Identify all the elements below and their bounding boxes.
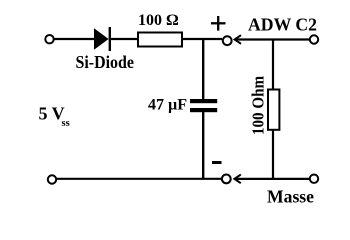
terminal circle bottom-left	[48, 175, 56, 183]
terminal circle top-left	[45, 35, 53, 43]
svg-text:47 µF: 47 µF	[148, 97, 187, 114]
wire: top-left terminal to diode anode	[54, 38, 95, 40]
resistor R2 (vertical box)	[268, 90, 279, 130]
wire: resistor R1 to node circle	[182, 38, 222, 40]
svg-text:ADW C2: ADW C2	[248, 15, 317, 35]
minus sign	[212, 161, 222, 164]
node circle top (+ output)	[223, 36, 232, 45]
terminal circle top-right (ADW C2)	[310, 35, 318, 43]
svg-text:ss: ss	[62, 118, 70, 129]
svg-text:Si-Diode: Si-Diode	[76, 52, 135, 72]
diode D1 Si-Diode (triangle + cathode bar)	[94, 27, 110, 51]
wire: bottom rail left segment	[57, 178, 223, 180]
wire: resistor R2 down to bottom rail	[272, 129, 274, 180]
wire: diode cathode to resistor R1	[110, 38, 139, 40]
arrow line from bottom-right terminal to bottom node (arrowhead)	[234, 175, 309, 184]
svg-text:100 Ohm: 100 Ohm	[249, 76, 268, 135]
wire: capacitor branch junction down from top rail	[202, 38, 204, 100]
wire: junction down from arrow line to resistor R2	[272, 39, 274, 91]
terminal circle bottom-right (Masse)	[310, 175, 318, 183]
node circle bottom (- output)	[222, 175, 231, 184]
svg-text:Masse: Masse	[267, 186, 314, 206]
plus sign	[211, 16, 226, 31]
resistor R1 (horizontal box)	[138, 33, 182, 47]
wire: capacitor bottom plate down to bottom rail	[202, 112, 204, 179]
label 5 Vss	[39, 104, 70, 130]
svg-text:100 Ω: 100 Ω	[138, 12, 179, 29]
capacitor C1 plates	[190, 99, 217, 112]
arrow line from right terminal to top node (arrowhead)	[235, 35, 310, 44]
